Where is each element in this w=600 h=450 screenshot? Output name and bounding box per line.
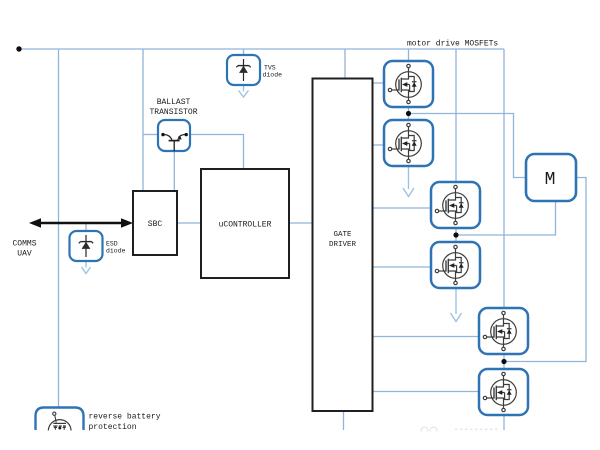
arrow below ESD diode xyxy=(82,261,91,274)
wire ballast to uController xyxy=(190,135,244,170)
transistor Q6 xyxy=(479,369,528,415)
svg-text:GATE: GATE xyxy=(333,231,352,239)
label ballast transistor xyxy=(149,98,197,117)
wire gate Q2 xyxy=(373,144,385,146)
wire rail to SBC xyxy=(142,49,144,191)
svg-text:BALLAST: BALLAST xyxy=(157,98,191,107)
label reverse battery protection xyxy=(89,413,161,433)
reverse battery protection MOSFET xyxy=(36,408,84,443)
faint clipped caption marks xyxy=(421,427,500,434)
transistor Q3 xyxy=(431,182,480,228)
node battery input xyxy=(16,46,21,51)
svg-text:protection: protection xyxy=(89,423,137,432)
gate driver block xyxy=(313,79,373,412)
wire uController to gate driver xyxy=(289,222,313,224)
SBC block xyxy=(133,191,177,255)
node phase C xyxy=(501,359,506,364)
node phase B xyxy=(453,232,458,237)
motor M xyxy=(526,154,576,201)
wire rail to gate driver xyxy=(344,49,346,79)
wire SBC to uController xyxy=(177,222,201,224)
transistor Q2 xyxy=(384,120,433,166)
arrow below TVS diode xyxy=(239,85,249,97)
wire Q6 source stub xyxy=(503,415,505,430)
label COMMS UAV xyxy=(12,240,36,259)
wire rail to Q1 xyxy=(408,49,410,61)
node phase A xyxy=(406,111,411,116)
svg-text:uCONTROLLER: uCONTROLLER xyxy=(219,221,272,230)
uController block U1 xyxy=(201,169,289,278)
svg-text:COMMS: COMMS xyxy=(12,240,36,249)
wire Q5-Q6 link xyxy=(503,354,505,369)
svg-text:SBC: SBC xyxy=(148,220,163,229)
wire phase A to motor xyxy=(409,114,527,178)
svg-text:TRANSISTOR: TRANSISTOR xyxy=(149,108,197,117)
wire phase C to motor xyxy=(504,178,586,362)
label TVS diode xyxy=(263,65,283,79)
wire gate Q4 xyxy=(373,266,432,268)
svg-text:UAV: UAV xyxy=(17,250,32,259)
comms bidirectional arrow xyxy=(29,218,133,228)
label ESD diode xyxy=(106,241,126,255)
wire gate Q3 xyxy=(373,207,432,209)
wire rail to Q3 xyxy=(455,49,457,182)
arrow below Q4 xyxy=(451,288,462,322)
wire ESD diode stub xyxy=(85,223,87,231)
transistor Q5 xyxy=(479,308,528,354)
wire ballast to SBC xyxy=(173,151,175,191)
wire ballast base xyxy=(143,134,158,136)
wire Q1-Q2 link xyxy=(408,107,410,120)
svg-text:TVS: TVS xyxy=(264,65,276,72)
wire gate Q5 xyxy=(373,336,480,338)
TVS diode component xyxy=(227,55,260,85)
wire rail to TVS diode xyxy=(243,49,245,55)
transistor Q4 xyxy=(431,242,480,288)
wire battery feed down left xyxy=(58,49,60,408)
wire rail drop to Q5 xyxy=(503,49,505,308)
wire phase B to motor xyxy=(456,201,556,235)
svg-text:diode: diode xyxy=(263,72,283,79)
ESD diode component xyxy=(70,231,103,261)
wire gate driver bottom stub xyxy=(343,411,345,430)
wire Q3-Q4 link xyxy=(455,228,457,242)
wire top supply rail xyxy=(19,48,504,50)
wire gate Q6 xyxy=(373,391,480,393)
wire gate Q1 xyxy=(373,82,385,84)
transistor Q1 xyxy=(384,61,433,107)
svg-text:ESD: ESD xyxy=(106,241,118,248)
arrow below Q2 xyxy=(403,166,414,197)
ballast transistor component xyxy=(158,120,190,151)
svg-text:motor drive MOSFETs: motor drive MOSFETs xyxy=(407,40,498,49)
svg-text:DRIVER: DRIVER xyxy=(329,241,357,249)
svg-text:diode: diode xyxy=(106,248,126,255)
svg-text:M: M xyxy=(545,170,556,190)
svg-text:reverse battery: reverse battery xyxy=(89,413,161,422)
